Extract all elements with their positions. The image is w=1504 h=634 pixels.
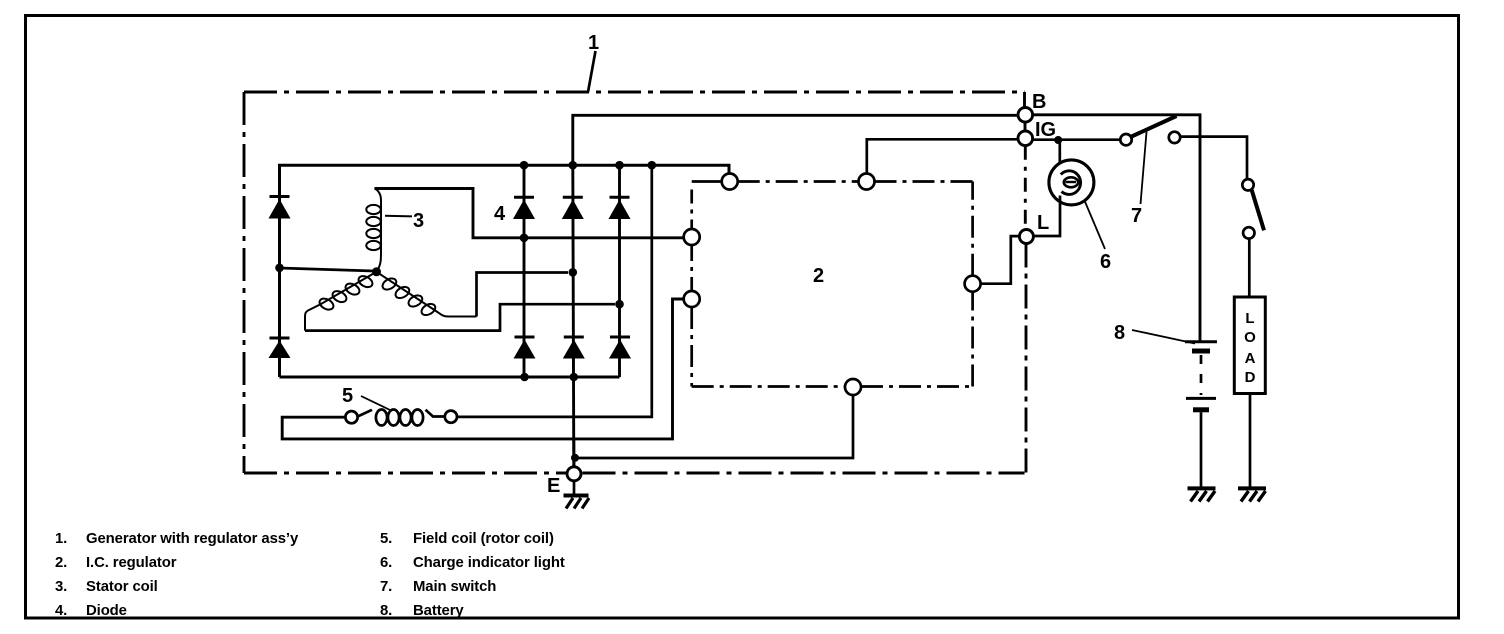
wire LOAD to ground bbox=[1249, 394, 1252, 487]
diode column 2 / E column bbox=[573, 165, 574, 467]
terminal B bbox=[1018, 108, 1033, 123]
node dot lamp tap bbox=[1054, 136, 1062, 144]
ground (battery) bbox=[1188, 488, 1216, 501]
svg-text:IG: IG bbox=[1035, 119, 1056, 141]
LOAD box bbox=[1234, 297, 1265, 394]
svg-text:4: 4 bbox=[494, 203, 506, 225]
svg-text:Charge indicator light: Charge indicator light bbox=[413, 555, 565, 571]
svg-text:7: 7 bbox=[1131, 205, 1142, 227]
diode D1 top bbox=[513, 197, 535, 219]
svg-text:Generator with regulator ass’y: Generator with regulator ass’y bbox=[86, 531, 299, 547]
wire tap down to lamp bbox=[1058, 140, 1061, 171]
svg-text:5: 5 bbox=[342, 385, 353, 407]
node dot bus/diode2 bbox=[569, 161, 578, 170]
svg-text:Stator coil: Stator coil bbox=[86, 579, 158, 595]
svg-text:Field coil (rotor coil): Field coil (rotor coil) bbox=[413, 531, 554, 547]
field coil riser wire bbox=[457, 165, 652, 417]
wire regulator bottom to E node bbox=[578, 395, 853, 458]
node dot bus3/d4 bbox=[520, 373, 529, 382]
stator coil 3: right leg bbox=[377, 272, 477, 318]
svg-text:6: 6 bbox=[1100, 251, 1111, 273]
load switch contact top bbox=[1242, 179, 1253, 190]
svg-text:2.: 2. bbox=[55, 555, 67, 571]
wire L to regulator right bbox=[981, 236, 1020, 284]
wire field coil left to regulator F bbox=[282, 299, 684, 439]
node dot col2 phase bbox=[569, 268, 578, 277]
battery 8 bbox=[1185, 342, 1217, 487]
regulator terminal bottom bbox=[845, 379, 861, 395]
svg-text:2: 2 bbox=[813, 265, 824, 287]
regulator terminal top-left bbox=[722, 174, 738, 190]
node dot d1/bus2 bbox=[520, 234, 529, 243]
ground (LOAD) bbox=[1238, 488, 1266, 501]
box 2: I.C. regulator (dash-dot border) bbox=[692, 182, 973, 387]
main switch 7 contact left bbox=[1120, 134, 1131, 145]
leader line for label 6 bbox=[1085, 201, 1106, 250]
wire right leg to diode column 2 bbox=[477, 273, 569, 317]
second bus y=238 bbox=[375, 189, 685, 238]
wire switch to load switch bbox=[1180, 137, 1247, 180]
wire left leg to diode column 3 bbox=[305, 304, 615, 330]
wire riser to B bbox=[573, 115, 1018, 165]
top bus wire bbox=[280, 165, 730, 377]
svg-text:O: O bbox=[1244, 329, 1256, 346]
leader line for label 8 bbox=[1132, 330, 1195, 344]
svg-text:3.: 3. bbox=[55, 579, 67, 595]
regulator terminal top-mid bbox=[859, 174, 875, 190]
wire left column to neutral bbox=[280, 268, 375, 271]
svg-text:1: 1 bbox=[588, 32, 599, 54]
diode D6 bottom bbox=[609, 337, 631, 359]
box 1: generator with regulator ass'y (dash-dot border) bbox=[244, 92, 1026, 473]
terminal L bbox=[1019, 230, 1033, 244]
node dot col3 phase bbox=[615, 300, 624, 309]
leader line for label 3 bbox=[385, 215, 412, 218]
load switch blade bbox=[1252, 190, 1264, 230]
node dot bus/diode1 bbox=[520, 161, 529, 170]
wire E column lower bbox=[572, 440, 575, 467]
diode D3 top bbox=[609, 197, 631, 219]
legend bbox=[55, 531, 565, 619]
svg-text:A: A bbox=[1245, 350, 1256, 367]
node dot E column bbox=[571, 454, 579, 462]
bulb filament bbox=[1061, 171, 1081, 195]
wire to load bbox=[1248, 239, 1251, 297]
terminal IG bbox=[1018, 131, 1033, 146]
svg-text:8: 8 bbox=[1114, 322, 1125, 344]
diode column 1 bbox=[523, 165, 526, 377]
svg-text:D: D bbox=[1245, 369, 1256, 386]
diode column 3 bbox=[618, 165, 621, 377]
svg-text:1.: 1. bbox=[55, 531, 67, 547]
leader line for label 7 bbox=[1141, 129, 1147, 205]
svg-text:Diode: Diode bbox=[86, 603, 127, 619]
svg-text:I.C. regulator: I.C. regulator bbox=[86, 555, 177, 571]
svg-text:B: B bbox=[1032, 91, 1046, 113]
svg-text:L: L bbox=[1037, 212, 1049, 234]
field coil 5 bbox=[345, 410, 457, 426]
main switch 7 contact right bbox=[1169, 132, 1180, 143]
svg-text:5.: 5. bbox=[380, 531, 392, 547]
node dot bus/field riser bbox=[648, 161, 657, 170]
regulator terminal left-1 bbox=[684, 229, 700, 245]
stator neutral node bbox=[372, 267, 381, 276]
terminal E bbox=[567, 467, 581, 481]
svg-text:7.: 7. bbox=[380, 579, 392, 595]
wire IG to switch with lamp tap bbox=[1033, 138, 1121, 141]
stator coil 3: left leg bbox=[305, 272, 377, 331]
node dot bus/diode3 bbox=[615, 161, 624, 170]
regulator terminal left-2 bbox=[684, 291, 700, 307]
main switch 7 blade bbox=[1131, 116, 1177, 137]
node dot left column bbox=[275, 264, 284, 273]
svg-text:Main switch: Main switch bbox=[413, 579, 496, 595]
wire regulator top-mid to IG bbox=[867, 139, 1018, 173]
diode D4 bottom bbox=[514, 337, 536, 359]
leader line for label 5 bbox=[361, 396, 390, 410]
svg-text:4.: 4. bbox=[55, 603, 67, 619]
ground (E terminal) bbox=[564, 481, 590, 509]
leader line for label 1 bbox=[588, 51, 596, 92]
node dot bus3/d5 bbox=[570, 373, 579, 382]
left diode column bbox=[278, 165, 281, 377]
svg-text:Battery: Battery bbox=[413, 603, 464, 619]
svg-text:L: L bbox=[1245, 310, 1254, 327]
stator coil 3: top leg bbox=[366, 189, 381, 272]
svg-text:E: E bbox=[547, 475, 560, 497]
wire B to battery corner bbox=[1033, 115, 1200, 342]
bottom bus y=377 bbox=[280, 376, 620, 379]
svg-text:8.: 8. bbox=[380, 603, 392, 619]
diode D2 top bbox=[562, 197, 584, 219]
diode D5 bottom bbox=[563, 337, 585, 359]
diode D7 left top bbox=[269, 197, 291, 219]
regulator terminal right bbox=[965, 276, 981, 292]
load switch contact bottom bbox=[1243, 227, 1254, 238]
diode D8 left bottom bbox=[269, 338, 291, 358]
charge indicator light 6 (bulb) bbox=[1049, 160, 1094, 205]
svg-text:6.: 6. bbox=[380, 555, 392, 571]
wire lamp to L bbox=[1033, 196, 1060, 237]
svg-text:3: 3 bbox=[413, 210, 424, 232]
